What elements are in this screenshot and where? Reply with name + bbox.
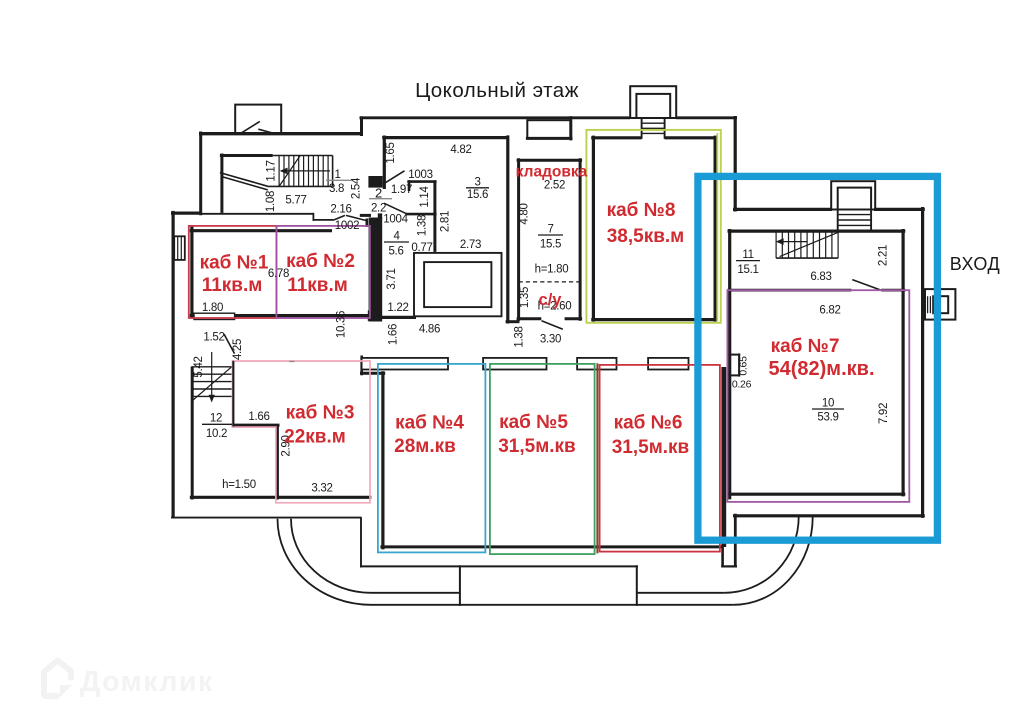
svg-text:10.36: 10.36 xyxy=(336,311,348,338)
kab4 left wall x382.9 xyxy=(381,371,384,549)
lintel bar 1 xyxy=(362,358,448,370)
stairs3 diagonal xyxy=(780,233,838,257)
wc door leaf xyxy=(542,321,563,330)
wall y138.4 under bump2 xyxy=(526,137,573,140)
corridor step x313.4 xyxy=(312,213,314,221)
svg-text:7: 7 xyxy=(547,224,553,236)
kab7 top wall left seg y290.1 xyxy=(728,289,852,292)
door 1002 leaf left xyxy=(333,215,345,220)
kab8 left wall x593.4 xyxy=(592,136,595,322)
svg-text:3.32: 3.32 xyxy=(311,483,332,495)
closet right wall x434.9 xyxy=(433,180,436,252)
FRACTION LINES xyxy=(289,180,392,361)
wall top y117.8 xyxy=(360,116,631,119)
svg-text:10: 10 xyxy=(822,398,834,410)
svg-text:11кв.м: 11кв.м xyxy=(202,275,263,296)
wall top right of chimney xyxy=(676,116,737,119)
LINTEL BARS xyxy=(362,358,689,370)
svg-text:4.86: 4.86 xyxy=(419,324,440,336)
shaft below bump3 right xyxy=(664,117,666,139)
svg-text:4.80: 4.80 xyxy=(519,203,531,224)
wall x722.6 corner xyxy=(721,545,724,568)
svg-text:3: 3 xyxy=(474,177,480,189)
wc bottom wall right seg xyxy=(565,317,583,320)
blue highlight box xyxy=(698,176,938,540)
shaft4 stripes xyxy=(838,214,871,216)
storeroom top wall y160.3 xyxy=(517,159,583,162)
svg-text:2.16: 2.16 xyxy=(330,204,351,216)
stairs2 diagonal xyxy=(193,367,232,401)
big wall column x368-382 xyxy=(369,218,383,322)
wall x735.2 upper right xyxy=(734,116,737,212)
svg-text:2.81: 2.81 xyxy=(440,211,452,232)
svg-text:15.6: 15.6 xyxy=(467,189,488,201)
kab7 right wall x903.1 xyxy=(901,229,904,496)
svg-text:каб №5: каб №5 xyxy=(499,412,568,433)
door 1002 leaf right xyxy=(346,215,367,220)
svg-text:5.6: 5.6 xyxy=(388,246,403,258)
fraction line room1 xyxy=(326,179,351,181)
closet bottom y214.1 xyxy=(406,213,437,216)
svg-text:каб №1: каб №1 xyxy=(200,253,269,274)
vent shaft big inner rect xyxy=(424,262,491,307)
thin wall x636.8 bay xyxy=(636,565,638,606)
WALLS xyxy=(171,116,925,606)
door 1003 leaf xyxy=(383,171,405,185)
svg-text:1.22: 1.22 xyxy=(387,302,408,314)
WATERMARK xyxy=(44,661,72,698)
bump1 chimney top-left xyxy=(235,105,281,134)
svg-text:1.35: 1.35 xyxy=(519,287,531,308)
bay inner line right y592.8 xyxy=(637,592,725,594)
shaft below bump4 left xyxy=(837,209,839,232)
kab7 niche right xyxy=(738,353,740,376)
kab1 left wall x191.9 xyxy=(190,226,193,318)
kab7 purple outline xyxy=(727,290,909,502)
door 1004 leaf xyxy=(384,203,408,214)
svg-text:4: 4 xyxy=(393,231,400,243)
wall x735.3 lower xyxy=(734,514,737,568)
arrowhead stairs1 xyxy=(280,168,288,175)
svg-text:54(82)м.кв.: 54(82)м.кв. xyxy=(768,358,874,380)
kab7 bottom outer wall y515.8 xyxy=(733,514,925,517)
svg-text:2.54: 2.54 xyxy=(351,177,363,199)
thin wall x459.9 bay xyxy=(459,565,461,606)
svg-text:1002: 1002 xyxy=(335,220,359,232)
kab8 right wall x715.1 xyxy=(713,136,716,322)
shaft3 stripes xyxy=(642,122,665,124)
kab3 left thin wall x233.3 xyxy=(232,361,234,427)
thin wall y566.4 bay top xyxy=(360,565,638,567)
closet left stub x409 xyxy=(408,180,411,191)
bump3 chimney outer xyxy=(630,86,676,118)
svg-text:22кв.м: 22кв.м xyxy=(284,427,346,448)
svg-text:5.42: 5.42 xyxy=(193,356,205,377)
kab7 niche bottom xyxy=(728,374,741,376)
wc bottom wall left seg xyxy=(517,317,542,320)
window pilaster left wall xyxy=(174,236,185,260)
wall x570.9 step xyxy=(570,116,573,140)
outer left wall x173.1 xyxy=(172,211,175,519)
svg-text:каб №4: каб №4 xyxy=(395,413,464,434)
kab3 notch vertical x277.3 xyxy=(276,425,279,500)
stairs1 top thin line xyxy=(273,155,333,157)
closet top y181.6 xyxy=(407,180,436,183)
svg-text:Цокольный этаж: Цокольный этаж xyxy=(415,79,579,102)
bump2 vent box xyxy=(527,120,570,138)
kab3 bottom wall y497.3 xyxy=(190,496,371,499)
lintel bar 2 xyxy=(483,358,546,370)
svg-text:1.38: 1.38 xyxy=(417,215,429,236)
watermark house icon xyxy=(44,661,71,695)
shaft below bump3 left xyxy=(641,117,643,139)
svg-text:11кв.м: 11кв.м xyxy=(287,275,348,296)
rooms 1-2 top wall y230.7 xyxy=(190,229,332,232)
svg-text:5.77: 5.77 xyxy=(285,195,306,207)
kab8 bottom wall y319.6 xyxy=(591,318,717,321)
fraction line room4 xyxy=(384,241,409,243)
svg-text:38,5кв.м: 38,5кв.м xyxy=(607,226,685,247)
door leaf 1.52 xyxy=(224,334,235,354)
svg-text:каб №8: каб №8 xyxy=(607,200,676,221)
step wall x361.7 xyxy=(360,356,363,376)
storeroom left wall x518.6 xyxy=(517,158,520,320)
tick on kab3 top xyxy=(289,361,295,363)
kab7 niche top xyxy=(728,354,741,356)
stair hall wall x221.9 xyxy=(220,154,223,213)
bay outer arc left xyxy=(277,519,371,605)
fraction line room2 xyxy=(369,198,392,200)
kab1 bottom left stub xyxy=(190,314,194,317)
kab8 top wall left seg xyxy=(591,136,641,139)
room3 top wall y137.6 xyxy=(382,136,508,139)
stairs2 arrow line xyxy=(211,352,213,399)
svg-text:кладовка: кладовка xyxy=(516,164,588,181)
svg-text:каб №3: каб №3 xyxy=(286,403,355,424)
bay inner arc left xyxy=(291,519,371,593)
svg-text:1003: 1003 xyxy=(408,169,432,181)
storeroom right wall x580.1 xyxy=(579,158,582,320)
stairs3 arrow xyxy=(779,241,807,243)
wall y213.1 left step xyxy=(171,212,201,215)
kab6 red outline xyxy=(600,365,720,552)
fraction line room11 xyxy=(736,260,760,262)
entry porch inner xyxy=(933,296,948,313)
entry porch outer xyxy=(925,289,955,320)
svg-text:каб №7: каб №7 xyxy=(771,336,840,357)
svg-text:4.82: 4.82 xyxy=(450,144,471,156)
DIMENSION TEXTS xyxy=(193,142,890,494)
bay inner arc right xyxy=(725,517,799,593)
vent shaft big outer rect xyxy=(414,253,502,316)
svg-text:11: 11 xyxy=(742,249,753,261)
svg-text:2.52: 2.52 xyxy=(544,180,565,192)
svg-text:12: 12 xyxy=(210,413,222,425)
rooms 4-6 bottom wall y546.9 xyxy=(380,545,723,548)
thin wall x361 down xyxy=(360,518,362,568)
fraction line room12 xyxy=(202,423,232,425)
svg-text:3.8: 3.8 xyxy=(329,183,344,195)
kab8 olive outline xyxy=(586,130,720,323)
bay outer arc right xyxy=(734,517,813,605)
svg-text:1.65: 1.65 xyxy=(385,142,397,163)
stairs3 bottom line xyxy=(776,257,838,259)
bay bottom line y604.8 xyxy=(371,604,734,606)
svg-text:15.5: 15.5 xyxy=(540,239,561,251)
svg-text:1.17: 1.17 xyxy=(266,160,278,181)
room3 left upper wall x384.3 xyxy=(383,136,386,190)
STAIRS xyxy=(192,156,838,401)
kab1-2 bottom wall y315.6 xyxy=(235,314,368,317)
wall y209.4 left of bump4 xyxy=(733,208,832,211)
arrowhead stairs3 xyxy=(776,238,784,245)
lintel bar 4 xyxy=(648,358,688,370)
fraction line room7 xyxy=(538,234,563,236)
kab2 purple outline xyxy=(276,226,370,318)
svg-text:31,5м.кв: 31,5м.кв xyxy=(498,436,576,457)
svg-text:каб №2: каб №2 xyxy=(286,251,355,272)
wall y215.4 segment xyxy=(360,214,371,217)
RED ROOM LABELS xyxy=(200,164,875,459)
svg-text:53.9: 53.9 xyxy=(817,412,838,424)
kab5 green outline xyxy=(490,364,595,554)
svg-text:1.08: 1.08 xyxy=(265,191,277,212)
svg-text:1.80: 1.80 xyxy=(202,302,223,314)
svg-text:0.77: 0.77 xyxy=(411,242,432,254)
svg-text:15.1: 15.1 xyxy=(737,264,758,276)
svg-text:1.38: 1.38 xyxy=(514,326,526,347)
corridor thin line y213.8 xyxy=(199,213,313,215)
svg-text:6.82: 6.82 xyxy=(819,305,840,317)
svg-text:1: 1 xyxy=(334,169,340,181)
wall y209.4 right of bump4 xyxy=(874,208,925,211)
kab4 cyan outline xyxy=(378,364,486,553)
stairs1 treads xyxy=(279,156,328,187)
bump1 door leaf b xyxy=(258,129,274,133)
kab6 brown left line xyxy=(596,363,598,553)
bump4 chimney outer xyxy=(831,181,875,209)
kab1 red outline xyxy=(189,226,277,318)
svg-text:4.25: 4.25 xyxy=(232,339,244,360)
stairs1 bottom line xyxy=(268,185,333,187)
svg-text:1.66: 1.66 xyxy=(388,324,400,345)
fraction line room10 xyxy=(812,408,844,410)
step x366.8 kab2 corner xyxy=(365,219,368,228)
svg-text:10.2: 10.2 xyxy=(206,428,227,440)
step wall y373.3 xyxy=(360,372,385,375)
upper-left wall x200.7 xyxy=(199,132,202,216)
room3 right wall x507.8 xyxy=(506,135,509,323)
kab8 top wall right seg xyxy=(665,136,718,139)
svg-text:3.71: 3.71 xyxy=(386,268,398,289)
wall step vertical x361.5 xyxy=(360,116,363,136)
corridor thin line y219.9 xyxy=(313,219,333,221)
stairs-left wall x192.2 xyxy=(191,366,194,499)
outer right wall x922.6 xyxy=(921,207,924,518)
fraction line room3 xyxy=(466,187,489,189)
bump4 chimney inner xyxy=(838,188,871,210)
stairs2 treads xyxy=(192,367,232,397)
kab3 left wall black overpaint xyxy=(232,361,234,427)
small wall piece above column xyxy=(378,213,382,219)
ramp diagonal a xyxy=(220,173,268,187)
svg-text:2.21: 2.21 xyxy=(878,245,890,266)
stairs3 treads xyxy=(776,231,838,258)
svg-text:2.73: 2.73 xyxy=(460,239,481,251)
svg-text:28м.кв: 28м.кв xyxy=(394,436,456,457)
stair room top wall y231.1 xyxy=(728,230,906,233)
svg-text:6.83: 6.83 xyxy=(810,271,831,283)
kab7 left wall x729.7 xyxy=(728,229,731,499)
stair hall wall y155.5 xyxy=(220,154,273,157)
kab7 bottom wall y494.2 xyxy=(728,493,906,496)
svg-text:1.66: 1.66 xyxy=(248,411,269,423)
svg-text:1.97: 1.97 xyxy=(391,184,412,196)
svg-text:1.52: 1.52 xyxy=(203,332,224,344)
svg-text:31,5м.кв: 31,5м.кв xyxy=(612,437,690,458)
stairs1 right edge xyxy=(332,156,334,187)
wall y321.7 link xyxy=(506,320,520,323)
bump1 door leaf a xyxy=(241,121,260,133)
kab3 pink outline xyxy=(233,361,371,503)
svg-text:каб №6: каб №6 xyxy=(614,413,683,434)
arrowhead stairs2 xyxy=(209,395,215,403)
svg-text:0.65: 0.65 xyxy=(738,356,750,376)
kab3 notch horizontal y425.2 xyxy=(232,424,280,427)
thin outer bottom y517.6 xyxy=(171,517,362,519)
wc dashed ceiling line xyxy=(519,281,581,283)
column left of door 1003 xyxy=(368,176,382,188)
kab7 top wall right seg y290.1 xyxy=(881,289,905,292)
kab7 door leaf xyxy=(852,280,881,291)
lintel bar 3 xyxy=(577,358,616,370)
shaft below bump4 right xyxy=(870,209,872,232)
svg-text:0.26: 0.26 xyxy=(732,379,752,391)
kab8 olive second right line xyxy=(716,133,718,322)
svg-text:1004: 1004 xyxy=(383,214,408,226)
svg-text:с/у: с/у xyxy=(539,291,563,309)
wall y317.4 right of column xyxy=(381,316,416,319)
wall top-left horizontal xyxy=(199,132,363,135)
svg-text:3.30: 3.30 xyxy=(540,334,561,346)
svg-text:h=1.50: h=1.50 xyxy=(222,479,256,491)
stairs1 arrow xyxy=(283,170,331,172)
svg-text:ВХОД: ВХОД xyxy=(950,254,1000,274)
door rect kab1 bottom xyxy=(194,313,235,319)
svg-text:7.92: 7.92 xyxy=(878,403,890,424)
wall y566.4 small link xyxy=(721,565,737,567)
column at kab2 bottom right xyxy=(368,310,382,321)
svg-text:Домклик: Домклик xyxy=(80,666,214,698)
porch jamb lines xyxy=(927,296,929,313)
bump3 chimney inner xyxy=(636,94,670,118)
bay inner line left y592.8 xyxy=(371,592,459,594)
stairs1 diagonal xyxy=(279,156,300,187)
wall between kab6 and kab7 xyxy=(721,367,726,547)
svg-text:h=1.80: h=1.80 xyxy=(535,264,569,276)
svg-text:1.14: 1.14 xyxy=(419,186,431,208)
ramp diagonal b xyxy=(221,176,268,190)
